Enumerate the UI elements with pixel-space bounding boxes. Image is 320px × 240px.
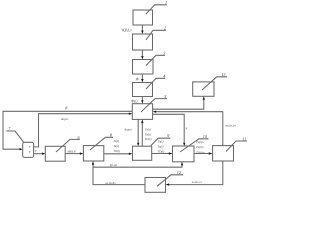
arrowhead into block6 left — [42, 153, 45, 155]
svg-text:Tв(t): Tв(t) — [113, 144, 119, 148]
arrowhead into block5 left — [129, 113, 133, 115]
arrowhead into block5 bottom — [141, 119, 143, 123]
svg-text:Tл(t): Tл(t) — [113, 139, 119, 143]
arrowhead into block10 top — [183, 143, 185, 146]
wire Aprog block5 down to block9 — [137, 119, 139, 142]
svg-text:Tв(t): Tв(t) — [145, 132, 151, 136]
svg-text:Φ(t): Φ(t) — [131, 100, 138, 104]
svg-text:Aпрог: Aпрог — [123, 127, 133, 131]
svg-text:g: g — [186, 126, 188, 130]
svg-text:Aпрог: Aпрог — [60, 117, 70, 121]
svg-text:Φ: Φ — [136, 77, 139, 81]
svg-text:13: 13 — [221, 72, 225, 77]
arrowhead into block 5 — [141, 100, 143, 104]
svg-text:9: 9 — [167, 133, 170, 138]
svg-text:TО(t): TО(t) — [113, 149, 120, 153]
wire block5 to block10 top (g) — [153, 114, 185, 143]
block 10 — [173, 139, 209, 162]
wire block7 to block6 — [34, 153, 43, 155]
arrowhead into block10 bottom — [181, 162, 183, 166]
svg-text:F: F — [28, 150, 31, 154]
wire block4 to block5 — [141, 97, 143, 101]
block 3 — [133, 55, 166, 74]
svg-text:aл,βл,θл: aл,βл,θл — [105, 181, 116, 186]
arrowhead into block9 top — [137, 143, 139, 147]
svg-text:TО(t): TО(t) — [157, 149, 164, 153]
svg-text:F: F — [34, 149, 37, 153]
arrowhead into block8 left — [80, 152, 84, 154]
block 2 — [133, 30, 166, 50]
wire block11 top to block5 right — [156, 112, 223, 146]
arrowhead into block11 left — [209, 152, 213, 154]
block 7 — [6, 131, 33, 157]
wire g(t,A) branch to block10 bottom — [93, 165, 182, 167]
svg-text:Tл(t): Tл(t) — [145, 127, 151, 131]
wire block12 left up to block8 — [93, 165, 145, 185]
wire block8 to block9 — [104, 153, 129, 155]
wire block10 to block11 — [194, 153, 208, 155]
svg-text:12: 12 — [177, 170, 181, 175]
label stack T(t) between 5 and 9 — [145, 127, 152, 141]
arrowhead into block5 right — [153, 111, 157, 113]
block 13 — [193, 77, 227, 97]
svg-text:aл,bл,cл: aл,bл,cл — [226, 124, 237, 129]
svg-text:W,P,h,v: W,P,h,v — [121, 29, 132, 34]
wire Aprog from block7 to block5 left — [34, 114, 129, 147]
wire block3 to block4 — [141, 74, 143, 79]
arrowhead into block 4 — [141, 79, 143, 83]
wire block2 to block3 — [141, 50, 143, 56]
svg-text:TО(t): TО(t) — [145, 137, 152, 141]
svg-text:4: 4 — [163, 74, 165, 79]
block 1 — [133, 5, 167, 25]
arrowhead into block12 right — [166, 183, 170, 185]
label stack T(t)p between 10 and 11 — [196, 140, 205, 154]
wire block11 bottom loop to block12 — [169, 162, 223, 185]
svg-text:Tв(t): Tв(t) — [157, 144, 163, 148]
block 8 — [83, 137, 113, 161]
block 9 — [133, 138, 171, 160]
svg-text:11: 11 — [242, 136, 246, 141]
wire block1 to block2 — [141, 25, 143, 31]
svg-text:5: 5 — [164, 94, 166, 99]
svg-text:TО(t)п: TО(t)п — [196, 150, 205, 154]
block 6 — [45, 139, 80, 161]
block 4 — [133, 78, 166, 96]
wire block9 to block10 — [152, 153, 169, 155]
block 11 — [213, 141, 247, 161]
label stack T(t) between 8 and 9 — [113, 139, 120, 153]
svg-text:Tл(t): Tл(t) — [157, 139, 163, 143]
svg-text:Tл(t)п: Tл(t)п — [196, 140, 204, 144]
block7 inner marks — [28, 145, 31, 154]
block 5 — [132, 99, 167, 120]
wire block9 up to block5 bottom — [141, 123, 143, 146]
arrowhead into block 3 — [141, 56, 143, 60]
wire block5 to block13 — [153, 100, 204, 110]
svg-text:8: 8 — [65, 106, 68, 111]
arrowhead into block9 left — [129, 153, 133, 155]
svg-text:3: 3 — [163, 51, 165, 56]
block 12 — [145, 175, 183, 193]
wire net8 from block5 left to block7 — [3, 111, 132, 149]
arrowhead into block7 left — [20, 148, 23, 150]
svg-text:Tв(t)п: Tв(t)п — [196, 145, 204, 149]
svg-text:1: 1 — [165, 0, 167, 5]
label stack T(t) between 9 and 10 — [157, 139, 164, 153]
arrowhead into block13 bottom — [203, 96, 205, 99]
svg-text:F: F — [28, 145, 31, 149]
wire block6 to block8 — [65, 153, 80, 155]
svg-text:6: 6 — [78, 135, 81, 140]
svg-text:2: 2 — [164, 26, 166, 31]
arrowhead into block8 bottom — [92, 161, 94, 165]
arrowhead into block10 left — [169, 152, 173, 154]
arrowhead into block 2 — [141, 31, 143, 35]
